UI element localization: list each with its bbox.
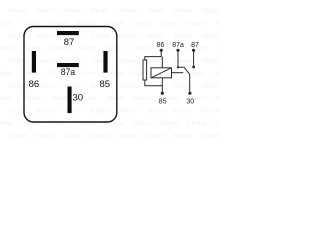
svg-text:30: 30 (73, 92, 84, 103)
svg-text:30: 30 (186, 99, 194, 106)
svg-text:86: 86 (29, 79, 40, 90)
svg-text:87: 87 (191, 42, 199, 49)
svg-text:87: 87 (64, 37, 75, 48)
svg-text:87a: 87a (61, 67, 76, 78)
svg-text:87a: 87a (172, 42, 184, 49)
svg-text:85: 85 (159, 99, 167, 106)
svg-text:85: 85 (100, 79, 111, 90)
svg-text:86: 86 (157, 42, 165, 49)
